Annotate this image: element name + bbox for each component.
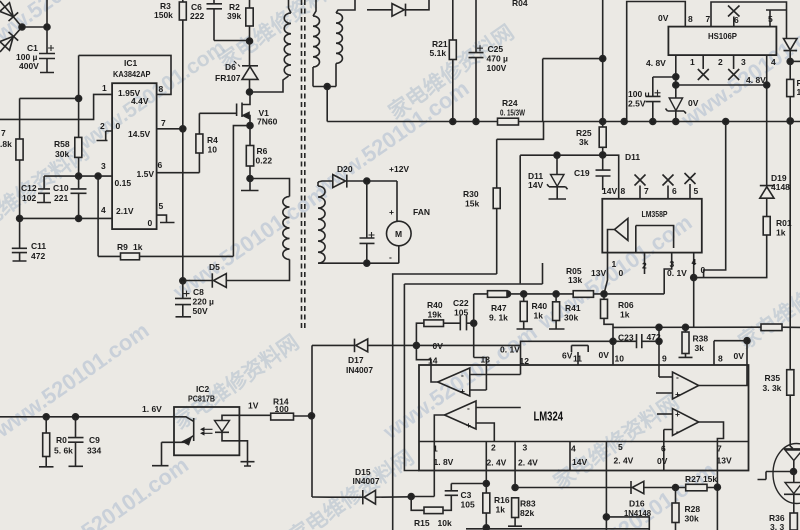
svg-text:R15: R15 [414, 518, 430, 528]
svg-text:0: 0 [148, 218, 153, 228]
svg-text:R6: R6 [257, 146, 268, 156]
IC1 pin6 stub [157, 172, 200, 174]
LM324 inner pin line [419, 441, 749, 443]
svg-text:7: 7 [1, 128, 6, 138]
svg-text:R4: R4 [207, 135, 218, 145]
svg-text:14: 14 [428, 356, 438, 366]
wire pin14 path [416, 345, 431, 365]
svg-text:4148: 4148 [771, 182, 790, 192]
node dots bus [600, 119, 606, 125]
resistor R83 [512, 485, 518, 491]
capacitor C(fan) [360, 181, 375, 263]
svg-text:C10: C10 [53, 183, 69, 193]
main 12V bus [327, 121, 800, 123]
resistor R24 [498, 118, 519, 125]
svg-text:C11: C11 [31, 241, 46, 251]
svg-text:7: 7 [161, 118, 166, 128]
svg-text:2: 2 [491, 443, 496, 453]
triac gate wire [758, 472, 794, 480]
svg-text:3: 3 [523, 443, 528, 453]
svg-text:-: - [676, 426, 679, 436]
wire top loop pin8 IC1 [79, 55, 171, 94]
svg-text:19k: 19k [428, 310, 442, 320]
svg-text:0. 1V: 0. 1V [667, 268, 687, 278]
diode D19 [760, 185, 774, 186]
svg-text:6: 6 [672, 186, 677, 196]
wire loop above R25 [543, 0, 603, 127]
svg-text:+: + [460, 386, 465, 396]
svg-text:R41: R41 [565, 303, 581, 313]
0V bus [613, 326, 800, 328]
svg-text:1: 1 [690, 57, 695, 67]
wire top rectifier [367, 9, 392, 11]
HS106P pin4 column [766, 55, 768, 185]
op-amp U4D triangle [673, 409, 699, 436]
svg-text:100: 100 [275, 404, 289, 414]
HS106P pin7 top wire [711, 2, 787, 39]
svg-text:7N60: 7N60 [257, 117, 278, 127]
ground [241, 179, 259, 191]
resistor R15 [411, 497, 424, 511]
wire [227, 259, 290, 280]
HS106P pin8 wire [627, 2, 686, 122]
diode D(hs) right [784, 39, 798, 51]
diode D17 [354, 339, 356, 353]
wire aux winding top [250, 179, 290, 197]
capacitor C19 [596, 155, 611, 190]
resistor R(edge) [789, 61, 791, 79]
fan winding L4 [317, 182, 319, 186]
aux winding L3 [283, 197, 290, 260]
svg-text:IC1: IC1 [124, 58, 138, 68]
svg-text:0: 0 [116, 121, 121, 131]
svg-text:222: 222 [190, 11, 204, 21]
wire C22 column [474, 294, 487, 365]
HS106P pin2 X mark [698, 55, 709, 80]
capacitor C11 [12, 218, 27, 261]
svg-text:1. 6V: 1. 6V [142, 404, 162, 414]
resistor R27 [686, 484, 707, 491]
wire R9 row [98, 255, 233, 257]
HS106P pin1 column [675, 55, 677, 98]
resistor R6 [249, 126, 251, 146]
svg-text:14V: 14V [572, 457, 587, 467]
svg-text:14V: 14V [602, 186, 617, 196]
svg-text:5: 5 [159, 201, 164, 211]
svg-text:6: 6 [734, 15, 739, 25]
light arrows [202, 429, 213, 433]
svg-text:R47: R47 [491, 303, 507, 313]
diode D20 [333, 175, 346, 188]
svg-text:470 µ: 470 µ [487, 54, 509, 64]
svg-text:13V: 13V [717, 456, 732, 466]
svg-text:0.22: 0.22 [256, 156, 273, 166]
resistor R36 [793, 494, 795, 513]
svg-text:102: 102 [22, 193, 36, 203]
svg-text:D17: D17 [348, 355, 364, 365]
svg-text:2: 2 [718, 57, 723, 67]
resistor R4 [198, 113, 200, 134]
svg-text:LM358P: LM358P [642, 209, 668, 219]
svg-text:0. 1V: 0. 1V [500, 345, 520, 355]
svg-text:FR107: FR107 [215, 73, 241, 83]
svg-text:50V: 50V [193, 306, 208, 316]
wire [233, 126, 250, 257]
svg-text:13: 13 [481, 355, 491, 365]
capacitor C25 [469, 0, 484, 122]
resistor R58 [75, 137, 82, 157]
wire fan bottom [318, 262, 399, 264]
wire [249, 41, 251, 66]
LM358P pin4 column [693, 253, 695, 328]
wire pin4 row [20, 217, 113, 219]
IC1 pin7 stub [157, 128, 183, 130]
LM358P X zener pin5 [685, 173, 696, 199]
triac diode bottom [793, 472, 795, 483]
wire [19, 160, 21, 218]
capacitor C(100u 2.5V) [646, 96, 661, 121]
svg-text:5: 5 [618, 442, 623, 452]
svg-text:M: M [395, 229, 402, 239]
capacitor C8 [175, 281, 191, 317]
secondary winding S2 [336, 0, 355, 13]
wire [20, 98, 79, 139]
node [247, 123, 253, 129]
svg-text:7: 7 [717, 444, 722, 454]
svg-text:R40: R40 [427, 300, 443, 310]
svg-text:221: 221 [54, 193, 68, 203]
capacitor C5 [207, 0, 250, 41]
svg-text:R28: R28 [685, 504, 701, 514]
diode D(in2) [0, 32, 18, 50]
diode D15 [330, 496, 363, 498]
resistor R7 [16, 139, 23, 160]
wire PC817 branch column [311, 345, 313, 497]
svg-text:6: 6 [158, 160, 163, 170]
LM324 box U4 [419, 365, 749, 471]
R05 resistor row [474, 293, 665, 295]
svg-text:C8: C8 [193, 287, 204, 297]
wire pin1 IC1 [0, 94, 112, 119]
diode D(top) [392, 4, 404, 17]
capacitor C22 [460, 315, 473, 330]
svg-text:30k: 30k [55, 149, 69, 159]
node A (rail) [76, 95, 82, 101]
wire pin9 column [658, 327, 660, 377]
wire pin1 to cap [653, 77, 676, 96]
svg-text:D5: D5 [209, 262, 220, 272]
svg-text:1: 1 [433, 444, 438, 454]
capacitor C12 [37, 176, 51, 202]
node dots [19, 24, 25, 30]
svg-text:8: 8 [688, 14, 693, 24]
LM324 pin1 column [433, 442, 435, 497]
HS106P pin3 X mark [728, 55, 739, 80]
LM324 pin3 column [514, 442, 516, 488]
svg-text:0V: 0V [658, 13, 669, 23]
wire R24 branch to R30 [497, 122, 544, 140]
triac circle [773, 444, 800, 504]
HS106P pin6 X mark [728, 6, 740, 27]
svg-text:FAN: FAN [413, 207, 430, 217]
svg-text:-: - [676, 372, 679, 382]
svg-text:1: 1 [797, 87, 800, 97]
diode D16 [630, 481, 632, 494]
svg-text:2. 4V: 2. 4V [614, 456, 634, 466]
AC input diagonal wires [0, 1, 22, 52]
svg-text:10: 10 [208, 145, 218, 155]
resistor R38 [685, 327, 687, 332]
center tap wire [313, 87, 336, 122]
svg-text:10k: 10k [438, 518, 452, 528]
resistor R05 [573, 291, 593, 298]
wire drain to primary [250, 76, 289, 92]
op-amp U4B triangle [445, 401, 477, 429]
svg-text:4: 4 [692, 257, 697, 267]
capacitor C9 [68, 417, 84, 467]
resistor R3 column [182, 0, 184, 2]
resistor R21 [452, 0, 454, 40]
svg-text:4: 4 [571, 444, 576, 454]
svg-text:C23: C23 [618, 333, 634, 343]
svg-text:2.5V: 2.5V [628, 99, 646, 109]
wire [97, 176, 99, 256]
svg-text:-: - [461, 370, 464, 380]
svg-text:3k: 3k [579, 137, 589, 147]
wire long right column [789, 121, 791, 327]
capacitor C10 [71, 176, 87, 218]
svg-text:1k: 1k [496, 505, 506, 515]
LM324 pin4 stub [569, 442, 571, 471]
wire [46, 0, 48, 53]
LM358P pin3 wire [664, 253, 672, 294]
wire 0V row to pin12 [416, 341, 613, 365]
svg-text:+: + [466, 420, 471, 430]
resistor R14 [239, 414, 270, 416]
svg-text:R58: R58 [54, 139, 70, 149]
svg-text:C12: C12 [21, 183, 37, 193]
svg-text:0V: 0V [657, 456, 668, 466]
LED D(pc817) [222, 415, 239, 420]
wire D16 row [515, 487, 631, 489]
svg-text:1k: 1k [776, 228, 786, 238]
IC1 box [112, 83, 157, 229]
svg-text:82k: 82k [520, 508, 534, 518]
op-amp U4C triangle [673, 372, 699, 399]
fan motor M [387, 221, 412, 246]
wire bus to R01 row [704, 122, 726, 278]
wire D15 left column [312, 496, 330, 498]
svg-text:8: 8 [718, 354, 723, 364]
svg-text:7: 7 [644, 186, 649, 196]
svg-text:4. 8V: 4. 8V [646, 58, 666, 68]
svg-text:LM324: LM324 [534, 410, 564, 424]
svg-text:2. 4V: 2. 4V [487, 458, 507, 468]
svg-text:1k: 1k [133, 242, 143, 252]
capacitor C23 [613, 334, 659, 348]
PC817 1.6V line [0, 416, 175, 418]
svg-text:PC817B: PC817B [188, 394, 215, 404]
svg-text:IN4007: IN4007 [353, 476, 380, 486]
svg-text:30k: 30k [685, 514, 699, 524]
capacitor C1 [39, 54, 55, 73]
svg-text:-: - [467, 403, 470, 413]
wire fan [396, 181, 398, 222]
svg-text:100 u: 100 u [628, 89, 650, 99]
LM358P X zener pin7 [635, 175, 646, 199]
secondary winding S1 [313, 0, 316, 16]
svg-text:1V: 1V [248, 401, 259, 411]
svg-text:2: 2 [642, 261, 647, 271]
HS106P box U3 [668, 27, 776, 55]
svg-text:400V: 400V [19, 61, 39, 71]
LM358P 14V row [520, 155, 619, 199]
wire [22, 26, 47, 28]
svg-text:0.15: 0.15 [115, 178, 132, 188]
svg-text:105: 105 [461, 500, 475, 510]
svg-text:R30: R30 [463, 189, 479, 199]
resistor R9 [121, 253, 140, 260]
svg-text:7: 7 [706, 14, 711, 24]
svg-text:3: 3 [741, 57, 746, 67]
svg-text:C25: C25 [488, 44, 504, 54]
svg-text:1k: 1k [620, 310, 630, 320]
svg-text:D11: D11 [625, 152, 640, 162]
svg-text:11: 11 [573, 354, 582, 364]
resistor R30 [496, 139, 498, 188]
svg-text:6: 6 [661, 444, 666, 454]
zener D(0V) [675, 97, 677, 99]
zener D11 [556, 155, 558, 174]
svg-text:2.1V: 2.1V [116, 206, 134, 216]
svg-text:30k: 30k [564, 313, 578, 323]
svg-text:+: + [389, 207, 394, 217]
svg-text:C19: C19 [574, 168, 590, 178]
IC1 pin5 stub ground [157, 215, 175, 222]
svg-text:13V: 13V [591, 268, 606, 278]
svg-text:R83: R83 [520, 499, 536, 509]
svg-text:100V: 100V [487, 63, 507, 73]
LM324 pin11 bracket [572, 345, 589, 365]
resistor R40 (1k) [523, 294, 525, 302]
svg-text:4. 8V: 4. 8V [746, 75, 766, 85]
diode D6 [242, 65, 258, 67]
svg-text:8: 8 [621, 186, 626, 196]
wire D17 row [312, 344, 355, 346]
svg-text:10: 10 [615, 354, 625, 364]
op-amp U2A triangle [615, 218, 628, 240]
svg-text:8: 8 [159, 84, 164, 94]
svg-text:0. 15/3W: 0. 15/3W [500, 108, 526, 118]
resistor R41 [555, 294, 557, 302]
svg-text:2: 2 [100, 121, 105, 131]
svg-text:4: 4 [771, 57, 776, 67]
wire [78, 157, 80, 176]
svg-text:+: + [675, 389, 680, 399]
svg-text:R40: R40 [532, 301, 548, 311]
svg-text:9. 1k: 9. 1k [489, 313, 508, 323]
svg-text:+12V: +12V [389, 164, 409, 174]
wire 0V mid row [404, 263, 542, 471]
diode D(in1) [0, 3, 18, 21]
resistor R06 [603, 294, 605, 299]
svg-text:R16: R16 [494, 495, 510, 505]
svg-text:IC2: IC2 [196, 384, 210, 394]
diode D5 [211, 273, 213, 287]
svg-text:0V: 0V [599, 350, 610, 360]
svg-text:IN4007: IN4007 [346, 365, 373, 375]
resistor R2 [249, 0, 251, 8]
svg-text:C9: C9 [89, 435, 100, 445]
LM324 pin6 stub [663, 442, 665, 471]
IC1 pin2 stub [97, 131, 113, 141]
resistor R35 [789, 327, 791, 369]
svg-text:R9: R9 [117, 242, 128, 252]
HS106P pin5 stub [766, 10, 787, 27]
svg-text:14.5V: 14.5V [128, 129, 151, 139]
svg-text:.8k: .8k [0, 139, 12, 149]
transistor Q(pc817) [162, 417, 194, 465]
wire [318, 181, 333, 182]
svg-text:-: - [389, 252, 392, 262]
svg-text:472: 472 [647, 332, 661, 342]
svg-text:14V: 14V [528, 180, 543, 190]
transformer core [301, 0, 303, 330]
svg-text:39k: 39k [227, 11, 241, 21]
svg-text:1.5V: 1.5V [137, 169, 155, 179]
svg-text:3. 3k: 3. 3k [763, 383, 782, 393]
svg-text:R01: R01 [776, 218, 792, 228]
LM358P pin1 column [604, 253, 608, 294]
LM358P box U2 [602, 199, 702, 253]
LM358P pin2 stub [644, 253, 646, 274]
svg-text:150k: 150k [154, 10, 173, 20]
resistor R0 [45, 417, 47, 433]
svg-text:1: 1 [612, 259, 617, 269]
svg-text:12: 12 [520, 356, 530, 366]
svg-text:R35: R35 [765, 373, 781, 383]
svg-text:R04: R04 [512, 0, 528, 8]
svg-text:3: 3 [101, 161, 106, 171]
svg-text:0: 0 [619, 268, 624, 278]
svg-text:5.1k: 5.1k [430, 48, 447, 58]
wire pin1-pin4 [676, 84, 767, 86]
triac diode top [784, 448, 800, 450]
svg-text:0V: 0V [734, 351, 745, 361]
svg-text:472: 472 [31, 251, 45, 261]
bottom rail [466, 528, 649, 530]
capacitor C3 [445, 484, 487, 496]
svg-text:KA3842AP: KA3842AP [113, 69, 151, 79]
svg-text:4: 4 [101, 205, 106, 215]
svg-text:220 µ: 220 µ [193, 297, 215, 307]
svg-text:5. 6k: 5. 6k [54, 446, 73, 456]
wire pin5 bottom [603, 514, 609, 520]
op-amp U4A triangle [438, 368, 470, 396]
svg-text:R38: R38 [693, 334, 709, 344]
svg-text:4.4V: 4.4V [131, 96, 149, 106]
svg-text:0V: 0V [688, 98, 699, 108]
svg-text:6V: 6V [562, 351, 573, 361]
op-amp U2A feedback loop [636, 226, 674, 253]
svg-text:R0: R0 [56, 435, 67, 445]
LM324 pin2 column [485, 442, 487, 530]
wire 14V column [519, 155, 521, 283]
svg-text:105: 105 [454, 308, 468, 318]
resistor R28 [675, 488, 677, 504]
resistor R25 [599, 127, 606, 147]
svg-text:334: 334 [87, 446, 101, 456]
